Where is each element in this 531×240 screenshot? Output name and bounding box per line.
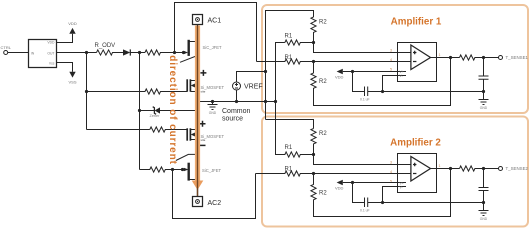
power VDD arrow [69,28,75,34]
amplifier 2 enclosure box [262,117,528,227]
terminal T_SENSE2 [499,167,503,171]
node diode output junction [138,51,141,54]
svg-text:SiC_JFET: SiC_JFET [203,45,223,50]
svg-text:R1: R1 [285,34,293,40]
wire V- to gnd rail amp2 [383,187,398,203]
svg-text:IN: IN [31,51,35,55]
capacitor 0.1uF amp2 [353,183,383,208]
svg-text:VREF: VREF [244,83,263,90]
wire VSS pin [57,63,73,72]
svg-text:R1: R1 [285,145,293,151]
transistor MOSFET2 Si_MOSFET [186,128,188,140]
diode D_ODV [123,49,130,55]
resistor MOSFET2 gate [150,127,187,132]
node minus input [312,60,315,63]
wire gate sense to amp1 minus [175,3,257,62]
svg-text:R2: R2 [319,131,327,137]
svg-text:GND: GND [209,111,217,115]
svg-text:GND: GND [480,106,488,110]
svg-text:R2: R2 [319,79,327,85]
orange current arrowhead [192,181,204,191]
transistor JFET1 SiC_JFET [187,40,189,56]
svg-text:R2: R2 [319,20,327,26]
transistor JFET2 SiC_JFET [187,163,189,181]
wire V- to gnd rail [383,76,398,92]
svg-text:site: site [201,138,206,142]
svg-text:VDD: VDD [68,21,77,26]
svg-text:Zener: Zener [150,114,161,118]
svg-text:Vss: Vss [49,61,55,65]
wire VREF rail to amp2 R2 [266,120,314,129]
svg-text:CTRL: CTRL [1,45,12,50]
wire VDD pin [57,34,73,43]
svg-text:4: 4 [390,58,392,62]
polarity plus amp2 [200,121,206,127]
wire VREF rail [266,11,314,120]
orange current band [195,26,200,183]
svg-text:1: 1 [439,53,441,57]
zener diode [140,110,155,112]
svg-text:Common: Common [222,108,251,115]
svg-text:OUT: OUT [47,51,54,55]
wire diode rail down [139,53,141,170]
resistor output amp2 [460,166,499,171]
node JFET2 gate net [171,168,174,171]
op-amp U2 [398,154,437,193]
source VREF [233,82,241,90]
svg-text:Amplifier 2: Amplifier 2 [390,138,441,149]
svg-text:3: 3 [390,161,392,165]
wire gnd rail amp2 [383,202,484,204]
ground common source [208,102,218,110]
svg-text:T_SENSE2: T_SENSE2 [506,166,529,171]
wire OUT row [57,52,97,54]
amplifier 1 enclosure box [262,5,528,113]
polarity plus amp1 [200,70,206,76]
wire common source row [198,101,276,103]
svg-text:direction of current: direction of current [167,55,178,165]
svg-text:0.1 uF: 0.1 uF [360,208,370,212]
wire common sense riser [276,43,285,102]
wire main switch column [197,25,199,197]
op-amp U1 [398,43,437,82]
wire op-amp1 output [431,57,460,59]
node OUT junction [85,51,88,54]
power VDD arrow amp2 [337,180,343,186]
svg-text:V-: V- [400,74,403,78]
wire op-amp2 output [431,168,460,170]
resistor output amp1 [460,55,499,60]
svg-text:1: 1 [439,164,441,168]
terminal AC1 [193,15,203,25]
node gnd tap [211,100,214,103]
power VDD arrow amp1 [337,69,343,75]
wire CTRL to driver IN [8,52,29,54]
svg-text:R_ODV: R_ODV [95,43,116,49]
svg-text:site: site [201,89,206,93]
wire rail to MOSFET2 gate row [87,129,150,131]
power VSS arrow [69,72,75,78]
wire jog to op-amp plus amp2 [314,155,411,165]
gate driver U1 [29,40,57,68]
wire gnd rail amp1 [383,91,484,93]
node minus input amp2 [312,172,315,175]
svg-text:Amplifier 1: Amplifier 1 [391,17,442,28]
terminal T_SENSE1 [499,56,503,60]
terminal AC2 [193,197,203,207]
svg-text:0.1 uF: 0.1 uF [360,97,370,101]
capacitor 0.1uF amp1 [353,72,383,97]
svg-text:R2: R2 [319,190,327,196]
ground amp1 [479,92,489,105]
wire VREF top [237,72,266,83]
orange current band core [197,26,199,197]
node output RC amp2 [482,167,485,170]
wire gate sense to amp2 minus [173,170,256,219]
capacitor output amp1 [479,58,489,92]
svg-text:V-: V- [400,186,403,190]
capacitor output amp2 [479,169,489,203]
svg-text:VDD: VDD [47,41,55,45]
wire driver vertical rail [86,53,88,130]
svg-text:VDD: VDD [335,186,344,191]
node output RC [482,56,485,59]
svg-text:4: 4 [390,170,392,174]
svg-text:VDD: VDD [335,75,344,80]
node zener junction [138,109,141,112]
resistor MOSFET1 gate [87,89,188,94]
resistor JFET1 gate [145,50,184,55]
polarity minus amp2 [200,144,206,146]
svg-text:AC2: AC2 [208,200,222,207]
svg-text:AC1: AC1 [208,18,222,25]
svg-text:SiC_JFET: SiC_JFET [202,168,222,173]
wire VREF bottom [236,90,238,102]
resistor JFET2 gate [140,167,184,172]
svg-text:source: source [222,115,243,122]
transistor MOSFET1 Si_MOSFET [186,79,188,91]
wire jog to op-amp plus [314,43,411,53]
node rail row2 [85,90,88,93]
node plus input [312,41,315,44]
svg-text:GND: GND [480,217,488,221]
ground amp2 [479,203,489,216]
svg-text:T_SENSE1: T_SENSE1 [506,55,529,60]
svg-text:VSS: VSS [68,80,76,85]
node plus input amp2 [312,153,315,156]
svg-text:3: 3 [390,49,392,53]
node JFET1 gate net [173,51,176,54]
